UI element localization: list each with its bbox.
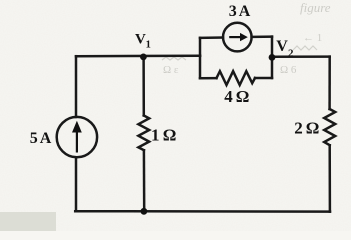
svg-text:2 Ω: 2 Ω — [294, 119, 319, 138]
svg-text:2: 2 — [288, 47, 294, 59]
svg-text:Ω 6: Ω 6 — [280, 64, 297, 76]
svg-text:4 Ω: 4 Ω — [224, 87, 249, 106]
svg-text:3 A: 3 A — [229, 3, 251, 20]
svg-text:1: 1 — [146, 40, 151, 51]
svg-text:← 1: ← 1 — [303, 32, 322, 44]
svg-text:1 Ω: 1 Ω — [151, 126, 176, 145]
svg-text:figure: figure — [300, 0, 331, 15]
svg-text:V: V — [276, 38, 288, 55]
svg-text:Ω ε: Ω ε — [163, 64, 179, 76]
svg-text:V: V — [135, 32, 146, 48]
svg-text:5 A: 5 A — [30, 130, 52, 147]
